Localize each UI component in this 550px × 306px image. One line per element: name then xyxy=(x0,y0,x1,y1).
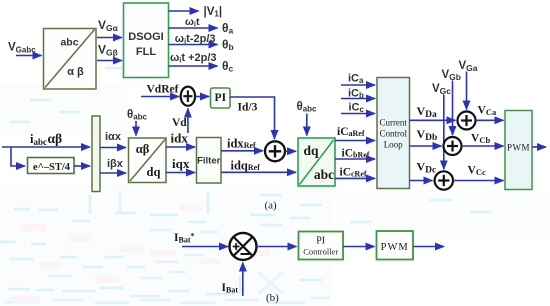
svg-text:ωit: ωit xyxy=(185,16,200,29)
svg-text:iβx: iβx xyxy=(107,158,124,170)
svg-text:iCa: iCa xyxy=(348,73,364,86)
wire delay block to bus xyxy=(74,165,90,167)
svg-text:abc: abc xyxy=(314,167,334,182)
svg-text:(a): (a) xyxy=(265,200,278,212)
svg-text:iCaRef: iCaRef xyxy=(337,126,365,138)
svg-text:Loop: Loop xyxy=(384,140,403,150)
svg-text:Controller: Controller xyxy=(303,247,338,257)
svg-text:VdRef: VdRef xyxy=(147,84,179,96)
svg-text:PWM: PWM xyxy=(381,242,409,253)
wire i-beta-x xyxy=(100,158,126,173)
svg-text:VDc: VDc xyxy=(417,160,437,176)
wire omega-t plus 2p/3 to theta-c xyxy=(169,52,234,74)
svg-text:αβ: αβ xyxy=(136,142,150,156)
svg-text:VGc: VGc xyxy=(432,83,451,96)
svg-text:PI: PI xyxy=(215,92,227,104)
svg-text:VGabc: VGabc xyxy=(8,42,36,55)
svg-text:|V1|: |V1| xyxy=(204,6,223,19)
wire IBat* to comparator xyxy=(182,246,228,248)
block Current Control Loop xyxy=(377,78,410,189)
block PI Controller xyxy=(299,232,344,260)
wire VdRef to summing junction S1 xyxy=(141,96,179,98)
wire PWM output xyxy=(532,146,546,148)
wire S2 to dq/abc xyxy=(286,150,297,152)
wire PWM battery output xyxy=(413,246,444,248)
summing junction S5 xyxy=(435,171,453,189)
svg-text:Control: Control xyxy=(379,129,407,139)
wire PI Controller to PWM xyxy=(343,246,375,248)
svg-text:Filter: Filter xyxy=(197,156,221,167)
svg-text:dq: dq xyxy=(147,165,161,179)
svg-text:θabc: θabc xyxy=(297,101,318,114)
summing junction S2 xyxy=(265,141,285,161)
node VGc label and wire xyxy=(432,83,451,169)
svg-text:idx: idx xyxy=(171,131,189,146)
svg-text:(b): (b) xyxy=(266,292,279,304)
svg-text:iCc: iCc xyxy=(349,102,365,115)
wire VCc xyxy=(453,165,504,181)
wire VGabc input xyxy=(16,55,42,57)
wire idxRef to S2 xyxy=(221,137,263,151)
wire omega-t to theta-a xyxy=(169,16,234,36)
wire iabc main input to bus xyxy=(2,146,90,148)
wire |V1| output xyxy=(169,6,223,19)
svg-text:ωit +2p/3: ωit +2p/3 xyxy=(170,52,217,65)
svg-text:VCb: VCb xyxy=(471,133,490,146)
block abc to alpha-beta transform xyxy=(44,29,97,90)
svg-text:VGα: VGα xyxy=(98,18,119,33)
svg-text:Vd: Vd xyxy=(172,117,187,129)
svg-text:abc: abc xyxy=(60,37,78,49)
wire idqRef to dq/abc xyxy=(221,159,296,173)
block Filter xyxy=(197,138,222,184)
wire VCb xyxy=(462,133,504,147)
svg-text:iCbRef: iCbRef xyxy=(342,148,370,160)
wire iCc feedback input xyxy=(341,102,375,115)
svg-text:θa: θa xyxy=(222,21,234,36)
svg-text:DSOGI: DSOGI xyxy=(128,31,163,43)
svg-text:Current: Current xyxy=(379,118,407,128)
wire comparator to PI Controller xyxy=(257,246,297,248)
node VGa label and wire xyxy=(459,60,478,110)
wire PI to S2 carrying Id/3 xyxy=(230,97,275,139)
block PWM (inverter) xyxy=(505,111,532,190)
block DSOGI FLL xyxy=(124,3,169,78)
svg-text:Id/3: Id/3 xyxy=(238,102,258,114)
node theta-abc into alpha-beta/dq block xyxy=(127,109,148,136)
svg-text:VCc: VCc xyxy=(468,165,486,178)
svg-text:VCa: VCa xyxy=(478,105,497,118)
summing junction S1 xyxy=(181,87,195,106)
wire i-alpha-x xyxy=(100,131,126,148)
block dq to abc transform xyxy=(298,138,335,186)
node theta-abc into dq/abc block xyxy=(297,101,318,136)
block PI (voltage loop) xyxy=(211,88,231,108)
wire branch to delay block xyxy=(11,147,25,166)
svg-text:VDb: VDb xyxy=(417,127,438,143)
svg-text:θabc: θabc xyxy=(127,109,148,122)
wire iCa feedback input xyxy=(341,73,375,86)
svg-text:α β: α β xyxy=(67,66,84,78)
node VGb label and wire xyxy=(442,69,461,135)
summing junction S6 battery comparator xyxy=(230,233,257,260)
wire iCcRef xyxy=(335,167,375,179)
svg-text:VGa: VGa xyxy=(459,60,478,73)
wire VDa xyxy=(410,104,456,120)
wire iCb feedback input xyxy=(341,88,375,101)
svg-text:PI: PI xyxy=(316,236,325,247)
wire VGalpha xyxy=(97,18,122,38)
wire VDb xyxy=(410,127,442,146)
wire VDc xyxy=(410,160,437,181)
wire VCa xyxy=(476,105,504,121)
block PWM (battery) xyxy=(377,231,414,260)
wire omega-t minus 2p/3 to theta-b xyxy=(169,33,234,52)
svg-text:e^–ST/4: e^–ST/4 xyxy=(33,162,71,173)
wire idx xyxy=(166,131,195,148)
svg-text:iCcRef: iCcRef xyxy=(340,167,367,179)
svg-text:iqx: iqx xyxy=(172,156,190,171)
wire Vd feedback into S1 xyxy=(172,109,188,134)
block delay e^-ST/4 xyxy=(28,158,75,174)
svg-text:θb: θb xyxy=(222,38,234,53)
wire VGbeta xyxy=(97,43,122,61)
wire iCbRef xyxy=(335,148,375,160)
svg-text:idxRef: idxRef xyxy=(227,137,256,151)
wire IBat feedback xyxy=(222,263,243,297)
summing junction S3 xyxy=(458,112,476,130)
svg-text:PWM: PWM xyxy=(507,143,530,153)
wire iqx xyxy=(166,156,195,173)
svg-text:dq: dq xyxy=(303,143,319,158)
svg-text:FLL: FLL xyxy=(136,46,156,58)
svg-text:iαx: iαx xyxy=(105,131,122,143)
svg-text:VDa: VDa xyxy=(417,104,438,120)
svg-text:ωit-2p/3: ωit-2p/3 xyxy=(175,33,216,46)
svg-text:θc: θc xyxy=(222,59,234,74)
wire S1 to PI xyxy=(196,96,210,98)
summing junction S4 xyxy=(444,137,462,155)
bus bar xyxy=(92,116,100,192)
svg-text:idqRef: idqRef xyxy=(231,159,261,173)
block alpha-beta to dq transform xyxy=(129,138,167,183)
svg-text:VGβ: VGβ xyxy=(98,43,118,58)
wire iCaRef xyxy=(335,126,375,141)
